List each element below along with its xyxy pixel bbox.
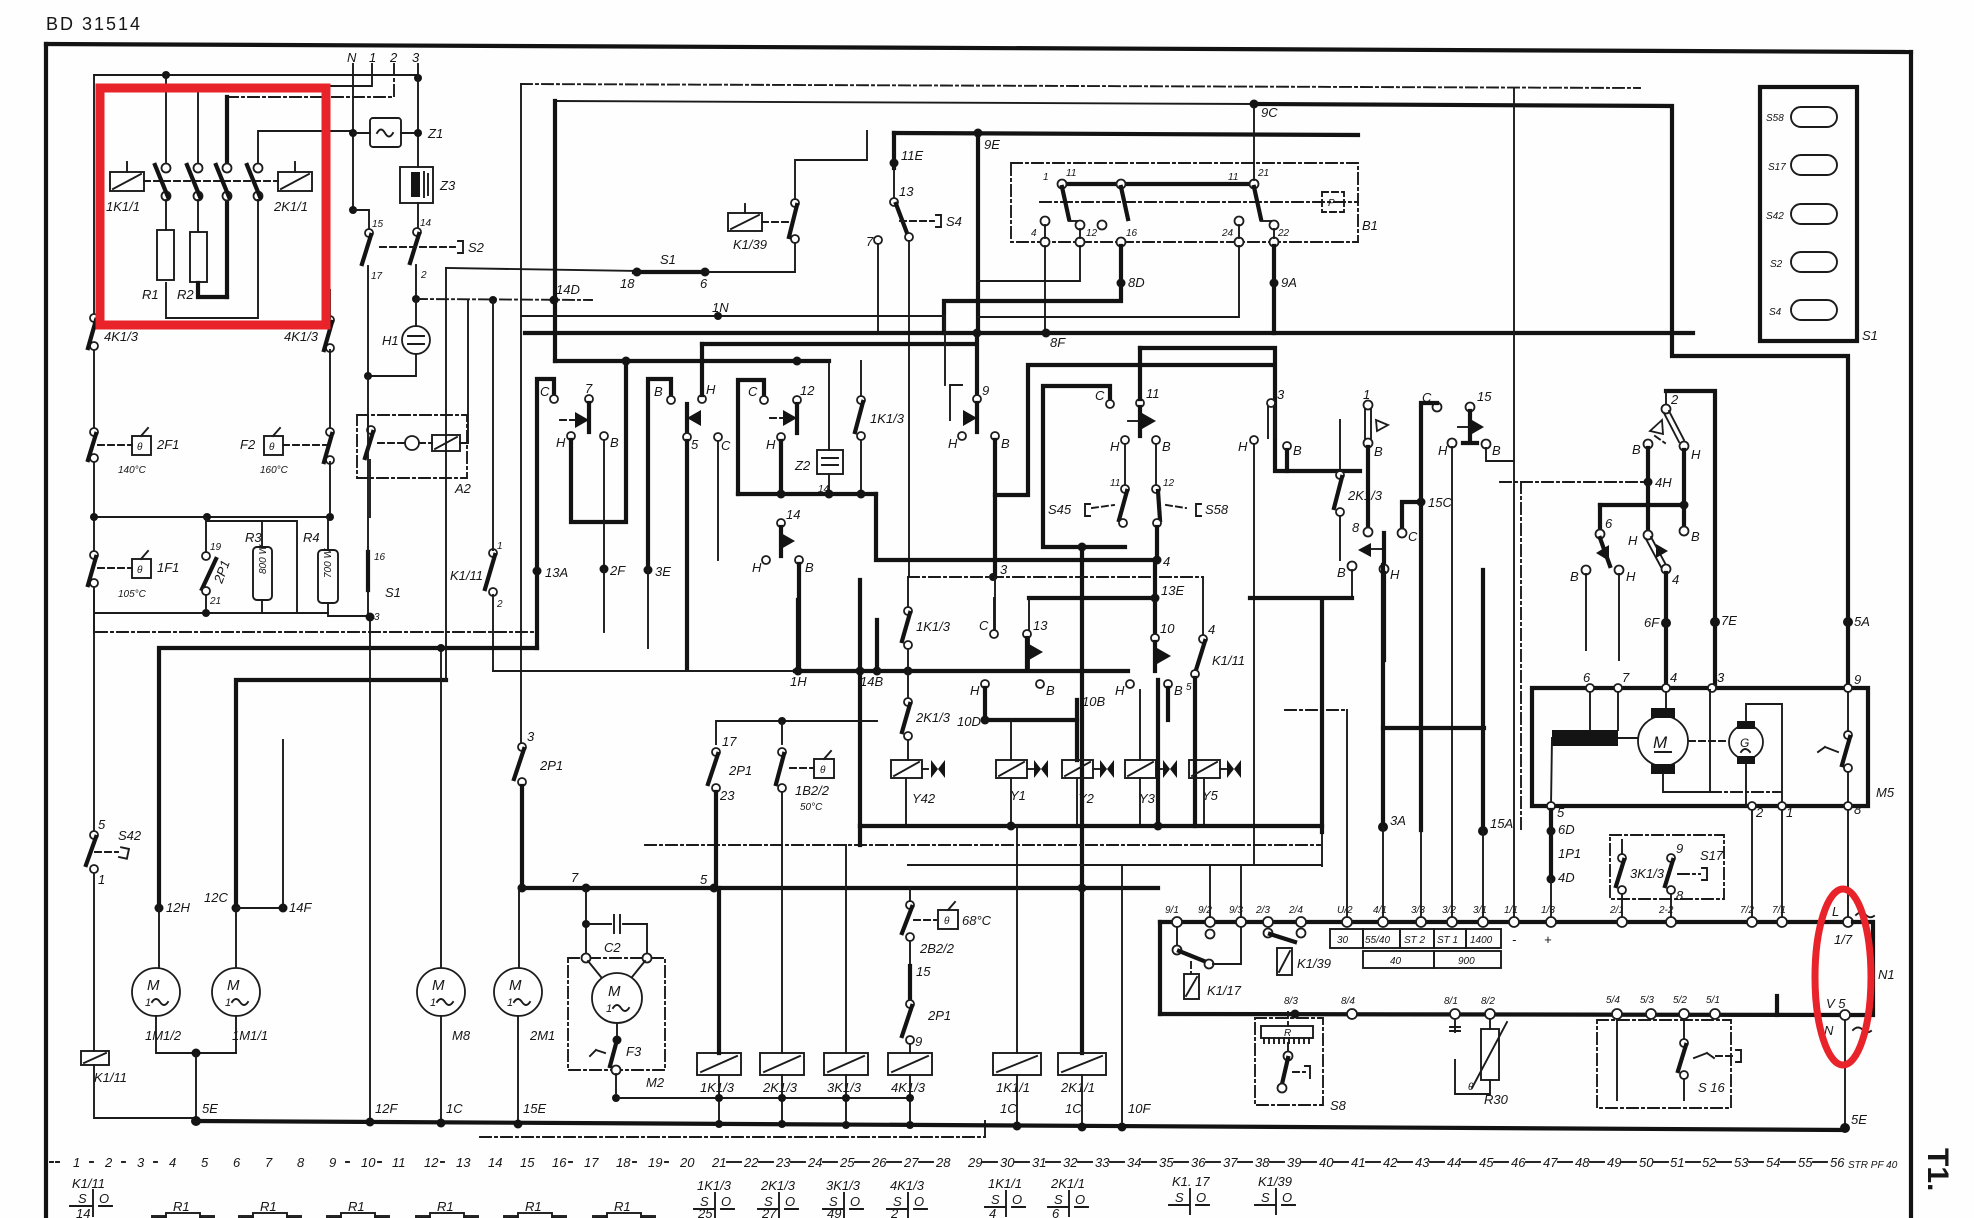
svg-text:8/3: 8/3 (1284, 996, 1298, 1007)
svg-text:θ: θ (820, 765, 826, 776)
bold stub (1775, 996, 1779, 1015)
svg-text:STR PF 40: STR PF 40 (1848, 1160, 1898, 1171)
svg-text:K1/39: K1/39 (733, 237, 767, 252)
svg-text:1M1/1: 1M1/1 (232, 1028, 268, 1043)
svg-text:31: 31 (1032, 1155, 1046, 1170)
terminal B (600, 432, 608, 440)
svg-text:B1: B1 (1362, 218, 1378, 233)
svg-text:θ: θ (137, 442, 143, 453)
svg-text:16: 16 (1126, 228, 1138, 239)
svg-text:+: + (1544, 932, 1552, 947)
svg-text:1C: 1C (1065, 1101, 1082, 1116)
svg-text:1: 1 (497, 541, 503, 552)
svg-text:15C: 15C (1428, 495, 1452, 510)
svg-text:10B: 10B (1082, 694, 1105, 709)
svg-text:15: 15 (1477, 389, 1492, 404)
svg-text:11: 11 (1110, 478, 1120, 489)
svg-text:O: O (1196, 1190, 1206, 1205)
svg-text:12: 12 (800, 383, 815, 398)
bold elbow left of row (1158, 922, 1162, 1014)
svg-text:4: 4 (1672, 572, 1679, 587)
svg-text:M8: M8 (452, 1028, 471, 1043)
motor 2M1 (518, 890, 520, 968)
svg-text:28: 28 (935, 1155, 951, 1170)
svg-text:5/1: 5/1 (1706, 995, 1720, 1006)
svg-text:14D: 14D (556, 282, 580, 297)
relay contact K1/39 (1264, 929, 1273, 938)
bold bus y888 (522, 886, 1158, 890)
svg-text:H: H (948, 436, 958, 451)
svg-text:M2: M2 (646, 1075, 665, 1090)
svg-text:33: 33 (1095, 1155, 1110, 1170)
dashdot lower boundary (480, 1120, 985, 1137)
svg-text:B: B (1570, 569, 1579, 584)
svg-text:3/3: 3/3 (1411, 905, 1425, 916)
node 9E (974, 129, 983, 138)
node 8D (944, 246, 1121, 333)
svg-text:2K1/3: 2K1/3 (762, 1080, 798, 1095)
terminal 8/4 (1347, 1009, 1357, 1019)
B1 pushbutton P (1322, 192, 1344, 212)
contact K1/11 right (1202, 577, 1204, 635)
svg-text:26: 26 (871, 1155, 887, 1170)
svg-text:S: S (991, 1192, 1000, 1207)
B1 crossbar 1-21 (1066, 182, 1254, 186)
svg-text:8/1: 8/1 (1444, 996, 1458, 1007)
lamp H1 (402, 326, 430, 354)
svg-text:C: C (1095, 388, 1105, 403)
wire R1 bottom link (166, 200, 258, 318)
terminal B (1152, 436, 1160, 444)
terminal 3 (1708, 684, 1716, 692)
svg-text:800 W: 800 W (258, 544, 269, 574)
contact group 12 bracket (738, 380, 764, 494)
svg-text:17: 17 (371, 271, 383, 282)
svg-text:S: S (78, 1191, 87, 1206)
contact flag left (685, 404, 689, 433)
svg-text:51: 51 (1670, 1155, 1684, 1170)
svg-text:6F: 6F (1644, 615, 1660, 630)
svg-text:53: 53 (1734, 1155, 1749, 1170)
node 13A (533, 567, 542, 576)
svg-text:39: 39 (1287, 1155, 1301, 1170)
contact group 3E bracket (648, 379, 671, 570)
tacho G (1689, 740, 1728, 742)
svg-text:55/40: 55/40 (1365, 935, 1390, 946)
wire bold 9E drop (976, 133, 980, 333)
svg-text:12H: 12H (166, 900, 190, 915)
svg-text:49: 49 (1607, 1155, 1621, 1170)
svg-text:2-2: 2-2 (1658, 905, 1674, 916)
svg-text:21: 21 (1257, 168, 1269, 179)
field winding bar (1552, 730, 1618, 746)
svg-text:3: 3 (1717, 670, 1725, 685)
svg-text:7/1: 7/1 (1772, 905, 1786, 916)
A2 internal switch (367, 426, 375, 434)
stubs terminals up (1210, 832, 1322, 917)
capacitor Z2 (817, 450, 843, 474)
relay coil K1/11 (81, 1051, 109, 1065)
svg-text:6: 6 (233, 1155, 241, 1170)
double blade 2-H (1664, 411, 1684, 442)
node 8/3 (1291, 1010, 1300, 1019)
switch 2P1 lower (909, 941, 911, 966)
terminal 8 (1844, 802, 1852, 810)
main bus 5E (196, 1121, 1845, 1130)
terminal 2/4 (1296, 917, 1306, 927)
svg-text:13: 13 (456, 1155, 471, 1170)
svg-text:4: 4 (1208, 622, 1215, 637)
terminal 1/3 (1546, 917, 1556, 927)
svg-text:3: 3 (1000, 562, 1008, 577)
wire Z3 to switch (417, 203, 419, 228)
svg-text:M: M (227, 977, 240, 994)
terminal 11 flag (1136, 399, 1144, 407)
svg-text:K1/17: K1/17 (1207, 983, 1242, 998)
svg-text:H: H (1238, 439, 1248, 454)
terminal 5/1 (1710, 1009, 1720, 1019)
node 4H (1500, 481, 1648, 483)
svg-text:H: H (556, 435, 566, 450)
svg-text:13: 13 (1033, 618, 1048, 633)
svg-text:1: 1 (1043, 172, 1049, 183)
svg-text:R4: R4 (303, 530, 320, 545)
svg-text:9E: 9E (984, 137, 1000, 152)
wire line3 vertical (417, 64, 419, 167)
node 5A (1843, 617, 1853, 627)
svg-text:13: 13 (899, 184, 914, 199)
motor 1M1/1 feeder (236, 680, 446, 908)
svg-text:H: H (1438, 443, 1448, 458)
svg-text:2/3: 2/3 (1255, 905, 1270, 916)
svg-text:2K1/1: 2K1/1 (1050, 1176, 1085, 1191)
dashed actuator link (144, 180, 278, 182)
svg-text:S: S (1054, 1192, 1063, 1207)
svg-text:2P1: 2P1 (539, 758, 563, 773)
svg-text:105°C: 105°C (118, 589, 147, 600)
contact 3 double bar (1267, 399, 1275, 407)
motor M8 (440, 648, 442, 969)
svg-text:9/1: 9/1 (1165, 905, 1179, 916)
svg-text:K1/11: K1/11 (450, 568, 483, 583)
terminal B (667, 396, 675, 404)
bold 13E chain (1029, 596, 1155, 600)
level switch S8 box (1255, 1018, 1323, 1105)
svg-text:12F: 12F (375, 1101, 398, 1116)
svg-text:2P1: 2P1 (728, 763, 752, 778)
terminal B lowleft (1582, 566, 1591, 575)
double blade H-4 (1646, 537, 1666, 567)
svg-text:10D: 10D (957, 714, 981, 729)
svg-text:19: 19 (210, 542, 222, 553)
svg-text:S4: S4 (1769, 307, 1782, 318)
svg-text:12C: 12C (204, 890, 228, 905)
svg-text:2K1/1: 2K1/1 (273, 199, 308, 214)
svg-text:1K1/3: 1K1/3 (870, 411, 905, 426)
bold vertical x1322 (1320, 602, 1324, 832)
svg-text:1F1: 1F1 (157, 560, 179, 575)
terminal 7 (585, 395, 593, 403)
border frame left (44, 44, 48, 1218)
svg-text:H: H (752, 560, 762, 575)
svg-text:C: C (979, 618, 989, 633)
node 3 junction (414, 74, 422, 82)
svg-text:O: O (99, 1191, 109, 1206)
red annotation ellipse (1815, 889, 1871, 1065)
svg-text:21: 21 (209, 596, 221, 607)
lower bus y1014 (1160, 1014, 1845, 1015)
svg-text:3K1/3: 3K1/3 (827, 1080, 862, 1095)
2P1 1B2 feed elbow (716, 721, 877, 744)
svg-text:-: - (1512, 932, 1517, 947)
svg-text:160°C: 160°C (260, 465, 289, 476)
terminal 2/1 (1617, 917, 1627, 927)
terminal 12 (793, 396, 801, 404)
svg-text:K1/11: K1/11 (94, 1070, 127, 1085)
svg-text:C: C (1408, 529, 1418, 544)
thermostat 2F1 (90, 428, 98, 436)
svg-text:37: 37 (1223, 1155, 1238, 1170)
terminal 9/2 (1205, 917, 1215, 927)
wire H drop to L-branch (571, 361, 626, 522)
svg-text:2K1/3: 2K1/3 (915, 710, 951, 725)
wire 24 drop (978, 246, 1239, 317)
contact 1K1/3 upper (857, 396, 865, 404)
svg-text:18: 18 (620, 276, 635, 291)
wire thin y268 (446, 268, 637, 271)
svg-text:54: 54 (1766, 1155, 1780, 1170)
selector panel S1 (1760, 87, 1857, 341)
suppressor Z1 (370, 118, 401, 147)
wire V5 to 5E (1844, 1020, 1846, 1128)
svg-text:5E: 5E (202, 1101, 218, 1116)
svg-text:4: 4 (1031, 228, 1037, 239)
svg-text:5: 5 (1186, 682, 1192, 693)
terminal 9/3 (1236, 917, 1246, 927)
svg-text:1K1/1: 1K1/1 (988, 1176, 1022, 1191)
relay coil 2K1/3 (760, 1053, 804, 1075)
svg-text:24: 24 (1221, 228, 1234, 239)
R1 contact row (152, 1199, 655, 1218)
svg-text:O: O (785, 1194, 795, 1209)
svg-text:42: 42 (1383, 1155, 1398, 1170)
svg-text:7E: 7E (1721, 613, 1737, 628)
svg-text:2/4: 2/4 (1288, 905, 1303, 916)
svg-text:4K1/3: 4K1/3 (284, 329, 319, 344)
svg-text:B: B (1046, 683, 1055, 698)
node N lower (349, 206, 357, 214)
S45-S58 bracket frame (1043, 386, 1125, 547)
node 10F (1118, 1123, 1127, 1132)
svg-text:8/4: 8/4 (1341, 996, 1355, 1007)
svg-text:1K1/1: 1K1/1 (996, 1080, 1030, 1095)
svg-text:17: 17 (584, 1155, 599, 1170)
contact group 13A: bracket (537, 379, 554, 571)
svg-text:15E: 15E (523, 1101, 546, 1116)
svg-text:12: 12 (1086, 228, 1098, 239)
module A2 dash-dot box (357, 415, 467, 478)
svg-text:ST 1: ST 1 (1437, 935, 1458, 946)
wire switch b to R2 (197, 200, 199, 232)
svg-text:30: 30 (1000, 1155, 1015, 1170)
svg-text:9: 9 (1676, 841, 1683, 856)
svg-text:4K1/3: 4K1/3 (890, 1178, 925, 1193)
svg-text:8: 8 (1854, 802, 1862, 817)
bold x877 feeder (875, 620, 879, 671)
svg-text:4H: 4H (1655, 475, 1672, 490)
svg-text:R1: R1 (348, 1199, 365, 1214)
svg-text:41: 41 (1351, 1155, 1365, 1170)
svg-text:1C: 1C (446, 1101, 463, 1116)
svg-text:U/2: U/2 (1337, 905, 1353, 916)
svg-text:900: 900 (1458, 956, 1475, 967)
svg-text:S4: S4 (946, 214, 962, 229)
bold x860 feeder (858, 580, 862, 826)
svg-text:H: H (766, 437, 776, 452)
terminal 3/1 (1478, 917, 1488, 927)
svg-text:11: 11 (1228, 172, 1238, 183)
svg-text:22: 22 (1277, 228, 1290, 239)
svg-text:S8: S8 (1330, 1098, 1347, 1113)
svg-text:8: 8 (1676, 888, 1684, 903)
terminal H (1121, 436, 1129, 444)
svg-text:Y1: Y1 (1010, 788, 1026, 803)
svg-text:68°C: 68°C (962, 913, 992, 928)
svg-text:B: B (654, 384, 663, 399)
terminal H (777, 433, 785, 441)
terminal 9/1 (1172, 917, 1182, 927)
svg-text:7/2: 7/2 (1740, 905, 1754, 916)
terminal 1 (1778, 802, 1786, 810)
svg-text:18: 18 (616, 1155, 631, 1170)
svg-text:27: 27 (903, 1155, 919, 1170)
svg-text:R1: R1 (525, 1199, 542, 1214)
contact 2K1/3 (1336, 471, 1344, 479)
terminal 7/1 (1777, 917, 1787, 927)
terminal B lower (1680, 527, 1689, 536)
svg-text:14: 14 (488, 1155, 502, 1170)
svg-text:S17: S17 (1768, 162, 1786, 173)
wire B to collector (995, 365, 1271, 495)
svg-text:22: 22 (743, 1155, 759, 1170)
program timer boxes row1 (1330, 929, 1363, 948)
relay contact K1/17 (1176, 927, 1178, 946)
svg-text:9: 9 (329, 1155, 336, 1170)
terminal C (760, 396, 768, 404)
svg-text:θ: θ (137, 565, 143, 576)
svg-text:30: 30 (1337, 935, 1349, 946)
svg-text:C: C (540, 384, 550, 399)
terminal H lowmid (1615, 566, 1624, 575)
svg-text:H: H (1110, 439, 1120, 454)
switch 2B2/2 (906, 901, 914, 909)
svg-text:1: 1 (145, 997, 151, 1009)
svg-text:N: N (347, 50, 357, 65)
svg-text:7: 7 (1622, 670, 1630, 685)
svg-text:15A: 15A (1490, 816, 1513, 831)
contact switch a (162, 164, 171, 173)
flag below 6 (1600, 538, 1610, 566)
svg-text:1: 1 (98, 872, 105, 887)
svg-text:46: 46 (1511, 1155, 1526, 1170)
svg-text:25: 25 (839, 1155, 855, 1170)
bold branch y344 (702, 342, 976, 346)
wire switch1 drop (165, 75, 167, 165)
svg-text:M: M (509, 977, 522, 994)
svg-text:1M1/2: 1M1/2 (145, 1028, 182, 1043)
capacitor C2 (585, 888, 587, 958)
svg-text:B: B (805, 560, 814, 575)
svg-text:S42: S42 (1766, 211, 1784, 222)
svg-text:1400: 1400 (1470, 935, 1493, 946)
contact group H B right (1126, 680, 1134, 688)
svg-text:S2: S2 (468, 240, 485, 255)
svg-text:F2: F2 (240, 437, 256, 452)
wire B drop group9 (993, 495, 997, 577)
svg-text:2: 2 (1670, 392, 1679, 407)
svg-text:5A: 5A (1854, 614, 1870, 629)
svg-text:7: 7 (265, 1155, 273, 1170)
svg-text:2K1/3: 2K1/3 (760, 1178, 796, 1193)
svg-text:S1: S1 (385, 585, 401, 600)
svg-text:11: 11 (1146, 386, 1160, 401)
svg-text:140°C: 140°C (118, 465, 147, 476)
svg-text:10: 10 (361, 1155, 376, 1170)
bold collector y505 (1600, 503, 1684, 507)
svg-text:θ: θ (269, 442, 275, 453)
contact switch b (194, 164, 203, 173)
feeder 12F (369, 617, 371, 1120)
motor M armature (1638, 716, 1688, 766)
svg-text:43: 43 (1415, 1155, 1430, 1170)
svg-text:2: 2 (389, 50, 398, 65)
bold link y348 (1140, 348, 1360, 471)
svg-text:H: H (1691, 447, 1701, 462)
svg-text:1: 1 (606, 1003, 612, 1015)
svg-text:27: 27 (761, 1206, 777, 1218)
wire R2 bottom link (198, 283, 227, 297)
border frame top (46, 44, 1911, 52)
svg-text:14: 14 (420, 218, 432, 229)
contact group 14 lower (777, 519, 785, 527)
thin collector y1098 (616, 1097, 912, 1099)
terminal H (567, 432, 575, 440)
svg-text:N1: N1 (1878, 967, 1895, 982)
svg-text:29: 29 (967, 1155, 982, 1170)
svg-text:S17: S17 (1700, 848, 1724, 863)
wire line1 branch (198, 64, 372, 165)
wires M5 to terminals (1752, 810, 1848, 922)
svg-text:1: 1 (369, 50, 376, 65)
svg-text:H: H (1626, 569, 1636, 584)
wire bold vertical x555 (553, 101, 557, 361)
contact group 1/B left (1364, 401, 1373, 410)
svg-text:11: 11 (392, 1155, 406, 1170)
svg-text:7: 7 (585, 381, 593, 396)
node 9C (1250, 100, 1259, 109)
terminal 4/1 (1378, 917, 1388, 927)
wire 2K1/1 top branch (258, 131, 353, 165)
svg-text:4D: 4D (1558, 870, 1575, 885)
svg-text:M: M (147, 977, 160, 994)
bold 6F drop (1664, 573, 1668, 688)
terminal 7 (1614, 684, 1622, 692)
svg-text:3: 3 (137, 1155, 145, 1170)
svg-text:48: 48 (1575, 1155, 1590, 1170)
svg-text:9: 9 (982, 383, 989, 398)
node 15C (1417, 498, 1426, 507)
wire switch a to R1 (165, 200, 167, 230)
